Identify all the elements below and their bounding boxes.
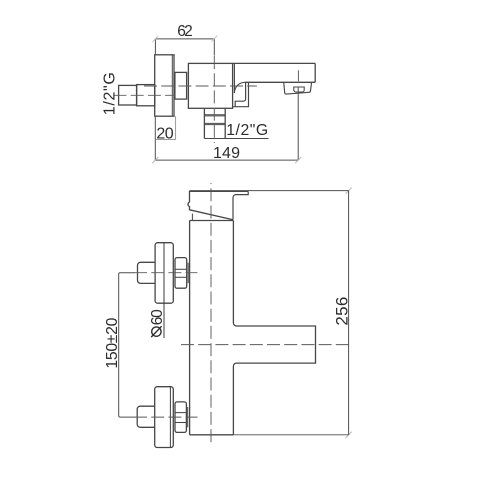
svg-text:62: 62 (177, 23, 193, 40)
lower escutcheon (155, 387, 174, 448)
valve bottom edge / 1/2"G leader underline (204, 138, 268, 140)
lower inlet centerline (134, 416, 198, 418)
wall plate inner face line (171, 55, 173, 116)
body right edge upper / spout arm / body right edge lower (233, 221, 315, 435)
vertical body centerline (210, 183, 212, 445)
spout right end (314, 63, 316, 82)
valve vertical centerline (213, 56, 215, 143)
dimension 62 (155, 39, 214, 56)
dimension 150±20 (119, 273, 135, 417)
svg-text:60: 60 (149, 309, 166, 325)
svg-text:1/2"G: 1/2"G (101, 72, 118, 115)
lower inlet pipe (137, 406, 155, 427)
upper inlet centerline (134, 272, 197, 274)
lever hook right end (233, 191, 248, 219)
dimension 149 (155, 88, 298, 161)
diverter hook under spout (235, 82, 248, 106)
spout bottom edge (245, 81, 315, 83)
upper wall union (138, 243, 189, 338)
text phi60 (rotated): slashed-circle symbol drawn manually (151, 326, 161, 337)
aerator centerline dash (297, 70, 299, 81)
body top edge (190, 220, 234, 222)
lower escutcheon face line (169, 387, 171, 448)
svg-text:150±20: 150±20 (104, 317, 121, 368)
wall plate (top view) (155, 55, 174, 116)
body/spout axis centerline (144, 85, 257, 87)
lever handle outline (188, 191, 248, 219)
upper union nut (175, 258, 187, 289)
aerator insert (294, 87, 304, 92)
faucet body (top view) (188, 63, 232, 108)
centerlines, front view (134, 183, 352, 445)
spout arm centerline (181, 344, 352, 346)
body left edge (189, 221, 191, 435)
upper escutcheon face line + phi60 leader (163, 243, 165, 338)
inlet nipple (top view) (119, 85, 137, 105)
lower union nut (175, 402, 186, 433)
svg-text:1/2"G: 1/2"G (226, 122, 268, 139)
svg-text:149: 149 (213, 145, 240, 162)
centerlines, top view (114, 56, 299, 143)
handle-side connector block (175, 72, 187, 99)
upper escutcheon (155, 243, 173, 304)
spout flange line + fillet to body (234, 63, 245, 93)
diverter foot lower edge to body (233, 106, 235, 108)
body bottom edge (190, 434, 234, 436)
lower wall union (137, 387, 188, 448)
inlet axis centerline (114, 94, 176, 96)
svg-text:20: 20 (156, 125, 173, 142)
20 thickness label box (155, 116, 175, 139)
spout top edge (233, 62, 316, 64)
dimension end ticks (152, 36, 351, 438)
upper inlet pipe (138, 262, 156, 283)
dimension 256 (190, 191, 349, 435)
bottom check valve stack (top view) (204, 108, 225, 138)
svg-text:256: 256 (332, 297, 351, 326)
inlet eccentric connector (top view) (137, 85, 155, 106)
aerator housing (top view) (284, 82, 312, 94)
cartridge neck line (191, 214, 193, 221)
